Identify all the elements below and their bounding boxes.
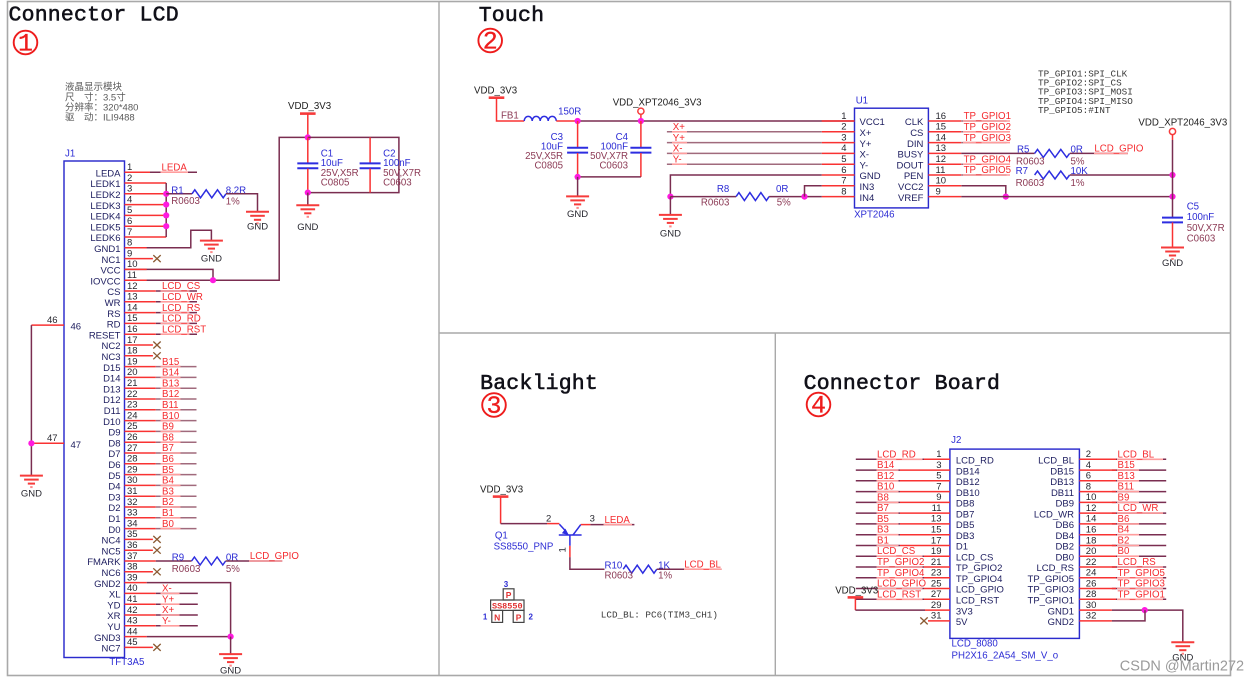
svg-text:10: 10 — [1086, 492, 1097, 503]
svg-text:C0603: C0603 — [1187, 234, 1216, 245]
svg-text:LEDA: LEDA — [96, 168, 121, 179]
J1 pin 26 D8 — [108, 432, 196, 449]
wire net B10 to J2 pin 7 — [856, 491, 950, 493]
svg-text:25: 25 — [931, 578, 942, 589]
svg-text:1%: 1% — [658, 571, 672, 582]
svg-text:6: 6 — [841, 165, 846, 176]
svg-text:LEDK5: LEDK5 — [90, 222, 120, 233]
J1 pin 31 D3 — [108, 486, 196, 503]
svg-text:13: 13 — [931, 514, 942, 525]
svg-text:B4: B4 — [1118, 525, 1130, 536]
U1 pin 3 Y+ — [822, 132, 872, 149]
svg-text:D2: D2 — [108, 503, 120, 514]
wire net TP_GPIO4 to J2 pin 23 — [856, 577, 950, 579]
wire GND2 up to GND1 (J2) — [1079, 610, 1145, 621]
svg-text:LCD_CS: LCD_CS — [956, 552, 994, 563]
J2 pin 7 DB10 — [936, 481, 979, 498]
J1 pin 3 LEDK2 — [90, 184, 166, 201]
wire VCC2 jog to VREF — [961, 186, 1005, 197]
svg-text:Y+: Y+ — [673, 133, 685, 144]
J1 pin 42 XR — [107, 605, 198, 622]
svg-text:B12: B12 — [877, 471, 894, 482]
wire R5 to net LCD_GPIO (touch) — [1070, 152, 1128, 154]
svg-text:28: 28 — [1086, 589, 1097, 600]
svg-text:12: 12 — [936, 154, 947, 165]
ferrite bead FB1 150R — [501, 107, 581, 122]
svg-text:3: 3 — [841, 132, 846, 143]
wire net B6 to J2 pin 14 — [1079, 523, 1166, 525]
svg-text:LCD_RD: LCD_RD — [877, 449, 916, 460]
J1 pin 4 LEDK3 — [90, 194, 166, 211]
svg-text:DB9: DB9 — [1056, 499, 1074, 510]
svg-text:TP_GPIO3: TP_GPIO3 — [1118, 579, 1165, 590]
wire GND3 junction down to ground — [230, 637, 232, 655]
J2 pin 31 5V — [931, 611, 968, 628]
svg-text:YU: YU — [107, 622, 120, 633]
svg-text:LEDA: LEDA — [605, 515, 631, 526]
svg-text:LEDK6: LEDK6 — [90, 233, 120, 244]
junction C4 top — [638, 118, 644, 124]
U1 pin 14 DIN — [907, 132, 961, 149]
svg-text:LCD_WR: LCD_WR — [1118, 503, 1159, 514]
svg-text:DB11: DB11 — [1051, 488, 1074, 499]
svg-text:22: 22 — [1086, 557, 1097, 568]
svg-text:B1: B1 — [877, 536, 889, 547]
svg-text:27: 27 — [931, 589, 942, 600]
svg-text:VCC2: VCC2 — [898, 182, 923, 193]
svg-text:100nF: 100nF — [1187, 212, 1215, 223]
svg-text:B13: B13 — [1118, 471, 1135, 482]
svg-text:20: 20 — [1086, 546, 1097, 557]
svg-text:TP_GPIO4: TP_GPIO4 — [956, 574, 1002, 585]
J2 pin 23 TP_GPIO4 — [931, 568, 1002, 585]
J1 pin 22 D12 — [103, 389, 196, 406]
svg-text:DB12: DB12 — [956, 477, 980, 488]
svg-text:0R: 0R — [776, 184, 788, 195]
svg-text:DB10: DB10 — [956, 488, 980, 499]
svg-text:B15: B15 — [1118, 460, 1135, 471]
svg-text:VDD_3V3: VDD_3V3 — [480, 484, 523, 495]
svg-text:GND: GND — [297, 222, 318, 233]
svg-text:9: 9 — [936, 186, 941, 197]
svg-text:46: 46 — [71, 322, 82, 333]
ground symbol below C1 — [296, 205, 319, 233]
ground symbol below C3 — [566, 196, 589, 220]
power symbol VDD_3V3 (J2) — [835, 586, 878, 611]
U1 pin 15 CS — [910, 122, 961, 139]
svg-text:D6: D6 — [108, 460, 120, 471]
ground symbol for GND1 — [200, 241, 223, 265]
svg-text:20: 20 — [127, 367, 138, 378]
J1 left pin 47 — [31, 433, 81, 451]
svg-text:25: 25 — [127, 421, 138, 432]
svg-text:X-: X- — [673, 144, 683, 155]
svg-text:TP_GPIO4: TP_GPIO4 — [964, 154, 1012, 165]
svg-text:R0603: R0603 — [1016, 178, 1045, 189]
svg-text:SS8550: SS8550 — [492, 601, 523, 611]
svg-text:23: 23 — [127, 400, 138, 411]
J2 pin 1 LCD_RD — [936, 449, 994, 466]
svg-text:LCD_8080: LCD_8080 — [952, 638, 999, 649]
svg-text:B10: B10 — [162, 411, 180, 422]
wire net B14 to J2 pin 3 — [856, 469, 950, 471]
svg-text:DB13: DB13 — [1050, 477, 1074, 488]
svg-text:C0603: C0603 — [383, 178, 412, 189]
svg-text:1: 1 — [483, 613, 488, 622]
ground symbol J2 — [1171, 642, 1194, 663]
svg-text:B5: B5 — [162, 465, 174, 476]
J1 pin 11 IOVCC — [90, 137, 307, 287]
U1 pin 11 PEN — [904, 165, 961, 182]
svg-text:B11: B11 — [1118, 482, 1135, 493]
svg-text:Touch: Touch — [479, 4, 545, 28]
wire net TP_GPIO5 — [961, 174, 1010, 176]
wire C3 bottom to ground — [577, 177, 579, 197]
svg-text:41: 41 — [127, 594, 138, 605]
svg-text:17: 17 — [931, 535, 942, 546]
svg-text:NC3: NC3 — [101, 352, 120, 363]
wire GND1 to ground — [125, 230, 212, 248]
svg-text:11: 11 — [127, 270, 137, 281]
svg-text:B11: B11 — [162, 400, 179, 411]
J2 pin 9 DB8 — [936, 492, 974, 509]
wire net Y- to U1 pin 5 — [667, 163, 822, 165]
svg-text:R5: R5 — [1017, 145, 1029, 156]
svg-text:D5: D5 — [108, 471, 120, 482]
svg-text:1%: 1% — [226, 197, 240, 208]
J2 pin 19 LCD_CS — [931, 546, 993, 563]
svg-text:33: 33 — [127, 508, 138, 519]
svg-text:Y+: Y+ — [860, 139, 872, 150]
svg-text:42: 42 — [127, 605, 138, 616]
J2 pin 12 LCD_WR — [1034, 503, 1097, 520]
J2 pin 20 DB0 — [1056, 546, 1097, 563]
capacitor C4 100nF — [590, 121, 651, 177]
J1 pin 16 RESET — [89, 324, 206, 341]
svg-text:17: 17 — [127, 335, 138, 346]
wire VDD_3V3 to J2 pin 29 — [855, 609, 950, 611]
svg-text:11: 11 — [936, 165, 946, 176]
SS8550 package icon — [483, 580, 534, 622]
connector J1 body (TFT3A5) — [64, 161, 125, 658]
wire C4 bottom to C3 bottom — [578, 176, 641, 178]
svg-text:13: 13 — [936, 143, 947, 154]
note TP_GPIO to SPI mapping — [1038, 69, 1133, 116]
wire net TP_GPIO3 to J2 pin 26 — [1079, 588, 1166, 590]
svg-text:22: 22 — [127, 389, 138, 400]
svg-text:26: 26 — [127, 432, 138, 443]
wire net B12 to J2 pin 5 — [856, 480, 950, 482]
svg-text:21: 21 — [931, 557, 942, 568]
wire VREF to rail — [961, 196, 1172, 198]
svg-text:RD: RD — [107, 320, 121, 331]
svg-text:7: 7 — [127, 227, 132, 238]
svg-text:3V3: 3V3 — [956, 606, 973, 617]
junction C1 bottom — [305, 190, 311, 196]
J1 pin 30 D4 — [108, 475, 196, 492]
svg-text:31: 31 — [127, 486, 138, 497]
ground symbol below C5 — [1161, 248, 1184, 269]
section number 2 — [478, 28, 502, 57]
U1 pin 13 BUSY — [898, 143, 962, 160]
svg-text:B9: B9 — [162, 422, 174, 433]
svg-text:D15: D15 — [103, 363, 120, 374]
svg-text:21: 21 — [127, 378, 138, 389]
wire R10 to net LCD_BL — [657, 568, 722, 570]
svg-text:LCD_RS: LCD_RS — [1037, 563, 1075, 574]
svg-text:4: 4 — [1086, 460, 1091, 471]
J2 pin 30 GND1 — [1048, 600, 1097, 617]
svg-text:46: 46 — [47, 315, 58, 326]
svg-text:LEDK3: LEDK3 — [90, 201, 120, 212]
svg-text:GND: GND — [660, 229, 681, 240]
svg-text:LCD_WR: LCD_WR — [162, 292, 203, 303]
svg-text:3: 3 — [936, 460, 941, 471]
svg-text:50V,X7R: 50V,X7R — [1187, 223, 1225, 234]
svg-text:39: 39 — [127, 572, 138, 583]
wire U1 GND pin6 to ground — [670, 175, 821, 197]
svg-text:LCD_GPIO: LCD_GPIO — [1094, 144, 1143, 155]
junction rail at VREF — [1169, 194, 1175, 200]
J2 pin 15 DB3 — [931, 525, 974, 542]
svg-text:6: 6 — [1086, 471, 1091, 482]
J2 pin 25 LCD_GPIO — [931, 578, 1004, 595]
svg-text:10: 10 — [936, 176, 947, 187]
svg-text:DB14: DB14 — [956, 466, 980, 477]
ground symbol below R1 — [246, 212, 269, 233]
svg-text:C5: C5 — [1187, 202, 1199, 213]
resistor R9 0R — [172, 552, 240, 575]
svg-text:LCD_BL: LCD_BL — [1038, 456, 1074, 467]
J1 pin 40 XL — [109, 583, 198, 600]
svg-text:8: 8 — [841, 186, 846, 197]
junction LEDK5 — [163, 223, 169, 229]
wire junction up to IN3 — [805, 186, 822, 197]
svg-text:1: 1 — [558, 547, 569, 552]
wire net TP_GPIO1 — [961, 120, 1010, 122]
J1 pin 19 D15 — [103, 356, 196, 373]
wire net B5 to J2 pin 13 — [856, 523, 950, 525]
wire net B15 to J2 pin 4 — [1079, 469, 1166, 471]
svg-text:5%: 5% — [226, 564, 240, 575]
svg-text:31: 31 — [931, 611, 942, 622]
J2 pin 2 LCD_BL — [1038, 449, 1091, 466]
svg-text:LCD_GPIO: LCD_GPIO — [250, 551, 299, 562]
J1 pin 33 D1 — [108, 508, 196, 525]
wire net TP_GPIO4 — [961, 163, 1010, 165]
svg-text:Q1: Q1 — [495, 531, 508, 542]
svg-text:DIN: DIN — [907, 139, 924, 150]
svg-text:NC4: NC4 — [101, 536, 120, 547]
svg-text:VREF: VREF — [898, 193, 924, 204]
wire Q1 collector to net LEDA — [581, 524, 635, 526]
node VDD_XPT2046_3V3 (left) — [613, 97, 702, 121]
svg-text:CLK: CLK — [905, 117, 924, 128]
svg-text:R0603: R0603 — [701, 197, 730, 208]
U1 pin 16 CLK — [905, 111, 961, 128]
svg-text:37: 37 — [127, 551, 138, 562]
junction VREF jog — [1003, 194, 1009, 200]
J1 LEDK bus vertical wire — [165, 183, 167, 237]
wire rail down to C5 — [1172, 140, 1174, 218]
svg-text:LCD_WR: LCD_WR — [1034, 509, 1074, 520]
junction C3 bottom — [575, 174, 581, 180]
J1 pin 35 NC4 — [101, 529, 160, 546]
section number 3 — [482, 392, 506, 421]
svg-text:IN4: IN4 — [860, 193, 875, 204]
svg-text:3: 3 — [127, 184, 132, 195]
svg-text:SS8550_PNP: SS8550_PNP — [494, 542, 554, 553]
junction pin47 ground wire — [28, 440, 34, 446]
svg-text:LEDK4: LEDK4 — [90, 212, 120, 223]
svg-text:47: 47 — [71, 440, 82, 451]
svg-text:14: 14 — [1086, 514, 1097, 525]
wire net B11 to J2 pin 8 — [1079, 491, 1166, 493]
svg-text:2: 2 — [546, 514, 551, 525]
svg-text:D3: D3 — [108, 492, 120, 503]
J2 pin 24 TP_GPIO5 — [1028, 568, 1097, 585]
svg-text:B12: B12 — [162, 389, 179, 400]
svg-text:TP_GPIO5:#INT: TP_GPIO5:#INT — [1038, 105, 1111, 116]
power symbol VDD_3V3 (touch) — [474, 86, 524, 122]
wire FB1 to VDD_XPT2046 rail — [556, 120, 854, 122]
svg-text:16: 16 — [936, 111, 947, 122]
svg-text:24: 24 — [1086, 568, 1097, 579]
svg-text:VDD_3V3: VDD_3V3 — [474, 86, 517, 97]
svg-text:2: 2 — [1086, 449, 1091, 460]
svg-text:NC5: NC5 — [101, 546, 120, 557]
svg-text:R1: R1 — [171, 185, 183, 196]
svg-text:D7: D7 — [108, 449, 120, 460]
J2 pin 5 DB12 — [936, 471, 979, 488]
svg-text:LCD_RST: LCD_RST — [162, 324, 206, 335]
IC U1 body XPT2046 — [855, 108, 929, 208]
wire FMARK to R9 — [125, 560, 156, 562]
svg-text:DB15: DB15 — [1050, 466, 1074, 477]
svg-text:LCD_BL: LCD_BL — [684, 559, 721, 570]
svg-text:9: 9 — [936, 492, 941, 503]
svg-text:5: 5 — [127, 205, 132, 216]
svg-text:LCD_RST: LCD_RST — [877, 589, 921, 600]
resistor R10 1K — [605, 560, 673, 581]
svg-text:B6: B6 — [162, 454, 174, 465]
J1 pin 8 GND1 — [94, 230, 211, 255]
svg-text:R0603: R0603 — [172, 564, 201, 575]
svg-text:12: 12 — [1086, 503, 1097, 514]
svg-text:驱 动：ILI9488: 驱 动：ILI9488 — [65, 113, 135, 124]
svg-text:LCD_RD: LCD_RD — [956, 456, 994, 467]
divider vertical between section 3 and 4 — [774, 333, 776, 676]
wire net TP_GPIO5 to J2 pin 24 — [1079, 577, 1166, 579]
J1 pin 36 NC5 — [101, 540, 160, 557]
svg-text:GND2: GND2 — [94, 579, 120, 590]
J1 pin 29 D5 — [108, 464, 196, 481]
svg-text:TP_GPIO1: TP_GPIO1 — [964, 111, 1011, 122]
svg-text:CS: CS — [107, 287, 120, 298]
svg-text:TP_GPIO2: TP_GPIO2 — [964, 122, 1011, 133]
svg-text:D14: D14 — [103, 374, 120, 385]
svg-text:LCD_CS: LCD_CS — [162, 281, 201, 292]
wire Q1 base down to R10 — [570, 546, 605, 569]
svg-text:C0603: C0603 — [599, 161, 628, 172]
capacitor C2 100nF — [360, 137, 421, 192]
svg-text:B7: B7 — [877, 503, 889, 514]
svg-text:B0: B0 — [1118, 546, 1130, 557]
J1 pin 45 NC7 — [101, 637, 160, 654]
svg-text:LCD_CS: LCD_CS — [877, 546, 916, 557]
svg-text:DB6: DB6 — [1056, 520, 1074, 531]
capacitor C1 10uF — [297, 137, 358, 192]
U1 pin 1 VCC1 — [822, 111, 885, 128]
svg-text:B8: B8 — [877, 492, 889, 503]
junction VCC-IOVCC — [210, 277, 216, 283]
svg-text:23: 23 — [931, 568, 942, 579]
J1 pin 43 YU — [107, 616, 198, 633]
svg-text:7: 7 — [936, 481, 941, 492]
svg-text:LCD_BL: PC6(TIM3_CH1): LCD_BL: PC6(TIM3_CH1) — [601, 610, 718, 621]
svg-text:4: 4 — [841, 143, 846, 154]
wire net B0 to J2 pin 20 — [1079, 555, 1166, 557]
wire net TP_GPIO3 — [961, 142, 1010, 144]
svg-text:5V: 5V — [956, 617, 968, 628]
svg-text:NC6: NC6 — [101, 568, 120, 579]
wire IOVCC to VDD_3V3 rail — [125, 137, 308, 280]
J2 pin 17 D1 — [931, 535, 968, 552]
svg-text:X-: X- — [162, 584, 172, 595]
U1 pin 2 X+ — [822, 122, 872, 139]
svg-text:30: 30 — [1086, 600, 1097, 611]
wire C1 bottom to ground — [307, 193, 309, 206]
J1 pin 27 D7 — [108, 443, 196, 460]
svg-text:35: 35 — [127, 529, 138, 540]
J2 pin 32 GND2 — [1048, 611, 1097, 628]
J1 pin 34 D0 — [108, 518, 196, 535]
wire R7 to VDD_XPT2046 rail — [1070, 174, 1173, 176]
svg-text:D8: D8 — [108, 438, 120, 449]
ground symbol below J1 — [219, 654, 242, 676]
wire net TP_GPIO1 to J2 pin 28 — [1079, 598, 1166, 600]
svg-text:XR: XR — [107, 611, 120, 622]
junction LEDK2 — [163, 191, 169, 197]
J2 pin 6 DB13 — [1050, 471, 1091, 488]
svg-text:18: 18 — [1086, 535, 1097, 546]
svg-text:LEDK1: LEDK1 — [90, 179, 120, 190]
wire junction to ground (touch) — [669, 197, 671, 215]
J2 pin 10 DB9 — [1056, 492, 1097, 509]
svg-text:X+: X+ — [673, 122, 685, 133]
J1 pin 1 LEDA — [96, 162, 197, 179]
svg-text:B4: B4 — [162, 476, 174, 487]
svg-text:R0603: R0603 — [605, 571, 634, 582]
svg-text:J2: J2 — [951, 435, 961, 446]
svg-text:LCD_RD: LCD_RD — [162, 314, 201, 325]
svg-text:VCC: VCC — [100, 266, 120, 277]
svg-text:X+: X+ — [162, 605, 174, 616]
svg-text:RS: RS — [107, 309, 120, 320]
wire net B7 to J2 pin 11 — [856, 512, 950, 514]
junction rail at R7 — [1169, 172, 1175, 178]
svg-text:Connector LCD: Connector LCD — [9, 4, 179, 28]
svg-text:TP_GPIO1: TP_GPIO1 — [1118, 589, 1165, 600]
svg-text:TP_GPIO3: TP_GPIO3 — [1028, 585, 1074, 596]
svg-text:19: 19 — [127, 356, 138, 367]
U1 pin 9 VREF — [898, 186, 961, 203]
svg-text:B2: B2 — [162, 497, 174, 508]
svg-text:44: 44 — [127, 626, 138, 637]
svg-text:VCC1: VCC1 — [860, 117, 885, 128]
svg-text:B14: B14 — [162, 368, 180, 379]
svg-text:DB4: DB4 — [1056, 531, 1074, 542]
